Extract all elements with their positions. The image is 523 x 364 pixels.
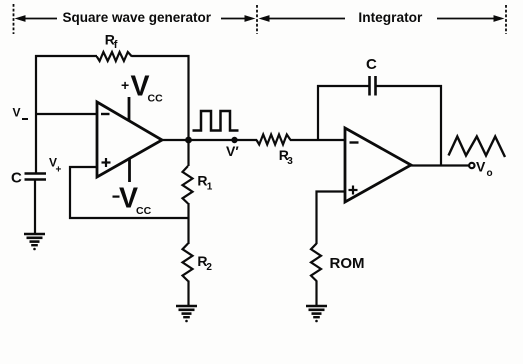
U1 plus sign [102,158,111,167]
label R2 [197,253,212,273]
arrow left of "Integrator" [259,15,346,22]
label +Vcc [121,71,163,105]
ground (below C) [24,234,45,250]
ground (below ROM) [306,306,327,322]
wire: integrator feedback left vertical [317,85,319,140]
svg-text:V: V [13,106,21,120]
wire: feedback loop left vertical (Rf) [35,55,37,174]
svg-text:o: o [487,168,493,179]
wire: R1 to R2 junction [187,203,189,244]
wire: non-inverting input of U1 to divider junction [70,167,188,218]
resistor Rf [97,52,132,61]
U2 plus sign [349,186,358,195]
wire: feedback loop right vertical down to output node [187,55,189,140]
arrow right of "Square wave generator" [221,15,256,22]
label Vo [476,159,493,180]
capacitor C (integrator) [370,76,376,96]
node: output junction [185,137,192,144]
wire: C to ground [34,180,36,234]
svg-text:CC: CC [136,205,152,217]
svg-text:C: C [366,56,377,73]
label R1 [197,173,212,193]
label -Vcc [113,183,152,218]
wire: U2 output [411,164,469,166]
wire: integrator feedback top left [317,85,369,87]
wire: R1 top lead [187,140,189,166]
wire: feedback top right segment [132,55,190,57]
capacitor C (left) [25,174,47,180]
wire: feedback top left segment [35,55,97,57]
label V+ [49,156,62,176]
node V' [231,137,237,143]
svg-text:Square wave generator: Square wave generator [63,9,212,25]
terminal Vo (open circle) [469,163,474,168]
svg-text:f: f [114,39,118,51]
arrow right of "Integrator" [437,15,505,22]
label Rf [105,32,118,52]
resistor R1 [183,166,193,204]
svg-text:V′: V′ [226,143,239,159]
resistor R3 [257,135,291,145]
label V- [13,106,29,121]
resistor ROM [311,244,321,282]
wire: R2 to ground [187,281,189,307]
svg-text:2: 2 [206,262,212,273]
+Vcc supply lead [128,97,131,121]
label R3 [279,147,293,167]
svg-text:3: 3 [287,156,293,167]
U2 minus sign [350,141,359,143]
svg-text:V: V [476,159,486,175]
resistor R2 [183,244,193,282]
wire: U2 non-inverting input to ROM [317,192,346,245]
section divider dashed line middle [256,5,258,34]
wire: inverting input of U1 [35,113,96,115]
square wave symbol [193,111,239,131]
wire: U1 output [162,139,257,141]
svg-text:Integrator: Integrator [358,9,423,25]
ground (below R2) [176,306,197,322]
svg-text:1: 1 [207,182,213,193]
U1 minus sign [101,113,110,115]
op-amp U1 [97,102,162,177]
section divider dashed line right [505,5,507,34]
op-amp U2 [345,128,411,202]
section divider dashed line left [13,4,15,34]
-Vcc supply lead [128,158,131,182]
arrow left of "Square wave generator" [15,15,58,22]
wire: integrator feedback right vertical [440,85,442,167]
wire: R3 to U2 inverting input [290,139,345,141]
svg-text:+: + [121,77,129,93]
svg-text:CC: CC [148,93,164,105]
wire: ROM to ground [315,281,317,307]
triangle wave symbol [449,137,506,158]
svg-text:+: + [56,165,62,176]
svg-text:ROM: ROM [330,255,365,272]
svg-text:C: C [11,170,22,187]
wire: integrator feedback top right [377,85,443,87]
